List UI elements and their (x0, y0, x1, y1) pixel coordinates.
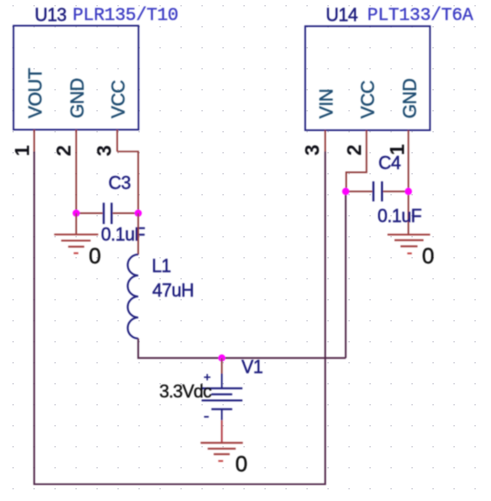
ground 0 under V1: bars (201, 443, 243, 454)
U14 pin 1 stub (407, 130, 409, 151)
svg-text:U13: U13 (35, 5, 67, 25)
node junction C3 right (135, 210, 142, 217)
svg-text:3.3Vdc: 3.3Vdc (159, 381, 212, 401)
wire U14 pin2 jog down to C4 left junction (346, 152, 366, 192)
svg-text:GND: GND (67, 78, 88, 118)
svg-text:3: 3 (94, 145, 116, 156)
ground 0 under C3: dash (74, 252, 79, 254)
U13 pin 1 stub (33, 130, 35, 152)
svg-text:PLR135/T10: PLR135/T10 (73, 6, 179, 26)
U13 pin 3 stub (116, 130, 118, 152)
capacitor C4 left wire (346, 190, 373, 192)
svg-text:1: 1 (12, 145, 34, 156)
ground 0 under C3: bars (54, 235, 98, 247)
svg-text:0: 0 (235, 452, 247, 477)
svg-text:VCC: VCC (108, 80, 129, 118)
wire U13 pin2 to C3 left junction (75, 152, 77, 214)
svg-text:0: 0 (89, 244, 101, 269)
wire L1 bottom to horizontal run (138, 339, 346, 359)
capacitor C3 left wire (76, 212, 102, 214)
ground 0 under V1: dash (218, 460, 223, 462)
svg-text:2: 2 (54, 145, 76, 156)
U13 pin 2 stub (75, 130, 77, 152)
svg-text:VIN: VIN (316, 89, 337, 119)
svg-text:0.1uF: 0.1uF (378, 206, 422, 226)
wire V1 minus to ground (221, 420, 223, 442)
svg-text:L1: L1 (152, 256, 172, 276)
svg-text:GND: GND (399, 79, 420, 119)
svg-text:C3: C3 (108, 173, 131, 193)
svg-text:3: 3 (302, 144, 324, 155)
ground 0 under C4: dash (407, 252, 412, 254)
source V1 plus sign (204, 374, 210, 380)
op-amp U13 box body (14, 26, 139, 130)
capacitor C4 right wire (383, 190, 408, 192)
capacitor C4 plates (373, 181, 382, 201)
node junction C4 left (342, 188, 349, 195)
svg-text:U14: U14 (326, 5, 358, 25)
svg-text:C4: C4 (378, 153, 401, 173)
node junction V1 tap (218, 354, 225, 361)
svg-text:VCC: VCC (357, 81, 378, 119)
ground 0 under C3: stub (75, 213, 77, 234)
wire x346 rise to C4 left junction (345, 191, 347, 358)
wire U14 pin1 down to C4 right junction and ground (407, 152, 409, 235)
wire VOUT net: left drop, bottom run, right rise to VIN (34, 152, 325, 485)
source V1 battery plates (202, 388, 243, 409)
svg-text:PLT133/T6A: PLT133/T6A (367, 6, 473, 26)
node junction C3 left (73, 210, 80, 217)
source V1 top pin (221, 374, 223, 389)
U14 pin 3 stub (324, 130, 326, 151)
svg-text:V1: V1 (242, 357, 264, 377)
node junction C4 right (405, 188, 412, 195)
svg-text:VOUT: VOUT (25, 68, 46, 118)
capacitor C3 plates (104, 203, 112, 224)
wire C3 right junction down to L1 (137, 213, 139, 254)
source V1 minus sign (204, 416, 209, 418)
source V1 bottom pin (221, 409, 223, 420)
ground 0 under C4: bars (388, 235, 431, 247)
svg-text:2: 2 (344, 144, 366, 155)
svg-text:0: 0 (422, 244, 434, 269)
op-amp U14 box body (305, 26, 430, 130)
capacitor C3 right wire (113, 212, 139, 214)
wire U13 pin3 jog to x138 (117, 152, 138, 214)
U14 pin 2 stub (366, 130, 368, 151)
svg-text:47uH: 47uH (152, 280, 193, 300)
wire V1 tap down (221, 358, 223, 374)
inductor L1 coil (128, 255, 139, 339)
